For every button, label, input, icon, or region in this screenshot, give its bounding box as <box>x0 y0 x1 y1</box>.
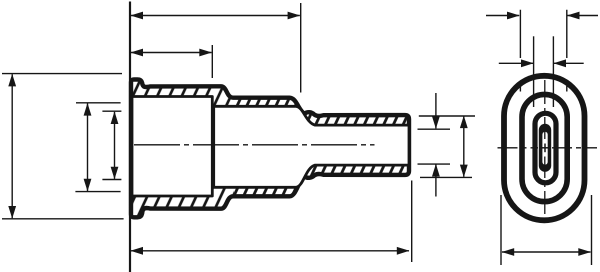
dim: tube OD <box>463 116 465 177</box>
center cross <box>541 147 550 149</box>
dim: top overall (flange face to taper end) <box>131 15 300 17</box>
ext line bore top <box>102 110 121 112</box>
ext line outer obround right <box>591 195 593 265</box>
dim: overall height left <box>11 74 13 218</box>
ext line flange depth <box>211 45 213 78</box>
inner capsule <box>539 124 551 172</box>
ext line top dim right <box>300 3 302 93</box>
dim: overall length bottom <box>131 250 409 252</box>
second obround <box>522 94 567 201</box>
wall hatching right <box>131 80 409 218</box>
cavity (flange bore) <box>132 97 212 197</box>
ext line bore bottom <box>102 179 121 181</box>
dim: flange depth <box>131 52 212 54</box>
ext line cavity top <box>76 102 121 104</box>
ext line overall length right <box>411 181 413 263</box>
ext line third obround right <box>552 36 554 107</box>
ext line tube ID top <box>418 128 451 130</box>
dim: second obround width (arrows outside) <box>486 15 519 17</box>
dim: bore height <box>114 112 116 179</box>
ext line third obround left <box>533 36 535 107</box>
boot outer profile <box>131 80 409 218</box>
dim: outer obround width <box>502 251 591 253</box>
dim: cavity height <box>87 103 89 191</box>
vertical centerline end view <box>544 80 546 214</box>
ext line second obround right <box>566 10 568 92</box>
ext line overall height bottom <box>2 218 124 220</box>
ext line tube ID bottom <box>418 163 451 165</box>
ext line tube OD top <box>419 115 475 117</box>
ext line overall height top <box>2 73 122 75</box>
wall hatching left <box>131 80 409 218</box>
outer obround <box>504 76 585 221</box>
ext line tube OD bottom <box>420 176 472 178</box>
inner capsule slot <box>542 132 547 165</box>
ext line outer obround left <box>500 195 502 265</box>
stepped bore <box>214 106 409 187</box>
dim: tube ID (arrows outside) <box>435 93 437 128</box>
third obround <box>535 113 556 183</box>
dim: third obround width (arrows outside) <box>499 62 533 64</box>
horizontal centerline end view <box>498 147 598 149</box>
centerline main view <box>134 144 375 146</box>
ext line second obround left <box>519 10 521 92</box>
panel face line <box>129 2 131 272</box>
ext line cavity bottom <box>75 191 120 193</box>
